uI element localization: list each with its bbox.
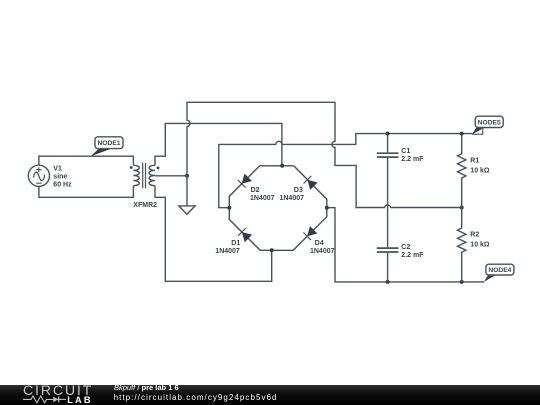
node R2 bottom junction bbox=[460, 280, 464, 284]
ground bbox=[179, 206, 195, 214]
node bridge bottom junction bbox=[270, 248, 274, 252]
svg-text:sine: sine bbox=[53, 174, 67, 181]
wire primary bottom bbox=[39, 186, 134, 198]
svg-text:1N4007: 1N4007 bbox=[310, 248, 335, 255]
svg-text:NODE4: NODE4 bbox=[488, 267, 511, 274]
node NODE1 flag bbox=[91, 137, 123, 156]
label R2 10 kOhm bbox=[470, 232, 490, 249]
node C1 top junction bbox=[386, 132, 390, 136]
svg-text:C2: C2 bbox=[401, 244, 410, 251]
svg-text:10 kΩ: 10 kΩ bbox=[470, 242, 490, 249]
svg-text:R1: R1 bbox=[470, 158, 479, 165]
CircuitLab logo bbox=[23, 383, 93, 399]
label R1 10 kOhm bbox=[470, 158, 490, 175]
wire center tap up with hop over y=123 bbox=[187, 102, 462, 207]
svg-text:C1: C1 bbox=[401, 148, 410, 155]
diode D3 bbox=[304, 176, 318, 190]
label D3 1N4007 bbox=[280, 187, 305, 202]
capacitor C1 bbox=[377, 134, 399, 248]
wire bridge right vertex to NODE4 rail bbox=[327, 208, 484, 282]
capacitor C2 bbox=[377, 248, 399, 282]
voltage source V1 bbox=[28, 165, 49, 186]
node C2 bottom junction bbox=[386, 280, 390, 284]
label C1 2.2 mF bbox=[401, 148, 424, 163]
label D4 1N4007 bbox=[310, 240, 335, 255]
svg-text:2.2 mF: 2.2 mF bbox=[401, 252, 424, 259]
svg-text:1N4007: 1N4007 bbox=[280, 195, 305, 202]
svg-text:D2: D2 bbox=[251, 187, 260, 194]
svg-text:D4: D4 bbox=[315, 240, 324, 247]
svg-text:D3: D3 bbox=[294, 187, 303, 194]
secondary coil bbox=[149, 165, 155, 185]
svg-text:1N4007: 1N4007 bbox=[250, 195, 275, 202]
node NODE5 flag bbox=[472, 116, 503, 134]
wire bridge left vertex bbox=[219, 134, 472, 208]
diode bridge octagon bbox=[229, 166, 326, 251]
node bridge left junction bbox=[227, 206, 231, 210]
svg-text:60 Hz: 60 Hz bbox=[53, 182, 72, 189]
label D2 1N4007 bbox=[250, 187, 275, 202]
svg-text:2.2 mF: 2.2 mF bbox=[401, 156, 424, 163]
footer bar bbox=[0, 385, 540, 405]
node bridge right junction bbox=[325, 206, 329, 210]
label D1 1N4007 bbox=[215, 240, 240, 255]
svg-text:1N4007: 1N4007 bbox=[215, 248, 240, 255]
node NODE4 flag bbox=[484, 264, 514, 282]
core bbox=[143, 163, 146, 189]
svg-text:XFMR2: XFMR2 bbox=[133, 202, 157, 209]
node bridge top junction bbox=[280, 164, 284, 168]
svg-text:NODE1: NODE1 bbox=[97, 140, 120, 147]
node center-tap junction bbox=[185, 174, 189, 178]
wire secondary top to bridge top bbox=[155, 123, 282, 165]
transformer XFMR2 bbox=[130, 163, 160, 189]
svg-text:10 kΩ: 10 kΩ bbox=[470, 168, 490, 175]
node R1-R2 mid junction bbox=[460, 206, 464, 210]
node R1 top junction bbox=[460, 132, 464, 136]
wire ground stem bbox=[186, 176, 188, 206]
svg-text:D1: D1 bbox=[231, 240, 240, 247]
phase dots bbox=[130, 166, 133, 169]
svg-text:NODE5: NODE5 bbox=[478, 119, 501, 126]
svg-text:R2: R2 bbox=[470, 232, 479, 239]
wire secondary bottom to bridge bottom bbox=[155, 186, 272, 282]
label C2 2.2 mF bbox=[401, 244, 424, 259]
resistor R2 bbox=[457, 208, 465, 282]
label XFMR2 bbox=[133, 202, 157, 209]
diode D2 bbox=[238, 174, 252, 188]
wire center tap bbox=[155, 175, 187, 177]
label V1 sine 60 Hz bbox=[53, 166, 72, 189]
primary coil bbox=[133, 165, 139, 185]
diode D1 bbox=[238, 228, 252, 242]
diode D4 bbox=[303, 226, 317, 240]
footer url text bbox=[114, 393, 278, 402]
wire primary top bbox=[39, 156, 134, 165]
footer title text bbox=[114, 383, 179, 392]
svg-text:V1: V1 bbox=[53, 166, 62, 173]
resistor R1 bbox=[457, 134, 465, 208]
